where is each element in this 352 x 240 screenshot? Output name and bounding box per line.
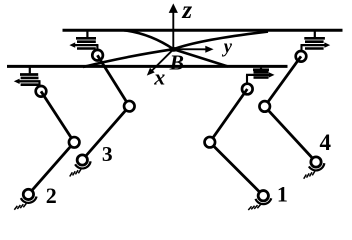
svg-text:4: 4 — [319, 130, 331, 155]
svg-text:B: B — [169, 50, 184, 74]
svg-text:3: 3 — [102, 142, 113, 166]
svg-text:1: 1 — [277, 182, 288, 207]
svg-text:z: z — [181, 0, 192, 24]
svg-text:y: y — [222, 38, 233, 58]
svg-text:x: x — [153, 65, 165, 90]
svg-text:2: 2 — [46, 183, 57, 208]
